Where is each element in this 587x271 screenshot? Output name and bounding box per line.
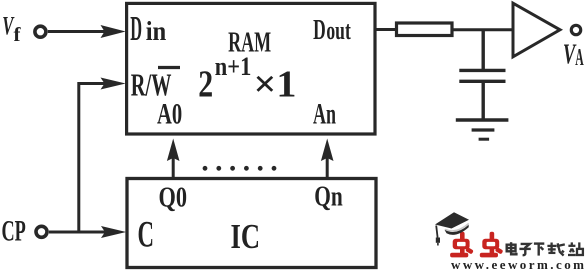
arrowhead into C (101, 226, 126, 238)
logo text zai (547, 243, 564, 256)
svg-text:2: 2 (198, 63, 213, 105)
logo bug char 2 (480, 232, 504, 258)
svg-text:n+1: n+1 (215, 52, 252, 81)
wire resistor to buffer (452, 28, 513, 31)
logo text dian (507, 242, 517, 254)
overline of W (158, 66, 180, 69)
arrow Q0 to A0 wire (172, 157, 175, 178)
svg-text:Qn: Qn (314, 182, 343, 213)
logo graduation cap board (435, 212, 469, 228)
arrowhead into R/W (101, 78, 126, 90)
svg-text:Q0: Q0 (159, 183, 188, 214)
svg-text:f: f (14, 24, 21, 46)
svg-text:out: out (326, 16, 351, 45)
IC block (counter) (127, 179, 376, 268)
svg-text:A: A (575, 45, 584, 71)
terminal VA (571, 25, 580, 34)
svg-text:R/W: R/W (131, 68, 172, 103)
svg-text:C: C (138, 213, 155, 254)
ground (456, 118, 509, 122)
svg-text:×1: ×1 (254, 63, 297, 105)
capacitor C1 bottom plate (459, 80, 505, 83)
logo cap tassel tail (437, 243, 439, 246)
RAM block U1 (127, 3, 375, 134)
terminal Vf (35, 26, 46, 37)
buffer amplifier U2 (513, 3, 560, 57)
arrowhead Q0 to A0 (167, 139, 180, 162)
logo text xia (534, 244, 544, 256)
svg-text:CP: CP (2, 216, 26, 248)
wire CP to C (49, 231, 107, 234)
arrow Qn to An wire (326, 157, 329, 178)
logo text zi (519, 244, 530, 255)
logo cap highlight band (445, 224, 469, 231)
logo cap tassel knot (436, 238, 440, 243)
svg-text:A0: A0 (157, 99, 182, 131)
svg-text:An: An (313, 99, 336, 131)
logo cap tassel (436, 226, 437, 238)
wire Vf to Din (48, 30, 106, 33)
svg-text:in: in (146, 16, 167, 46)
terminal CP (36, 226, 47, 237)
capacitor C1 top plate (459, 69, 505, 72)
wire node down to capacitor (482, 30, 485, 70)
svg-text:www.eeworm.com: www.eeworm.com (451, 257, 584, 271)
logo bug char 1 (450, 232, 474, 258)
logo cap body (445, 225, 469, 235)
svg-text:IC: IC (231, 218, 261, 256)
wire branch CP up to R/W pin (79, 84, 106, 233)
wire Dout to resistor (375, 28, 397, 31)
logo text zhan (568, 242, 583, 255)
arrowhead into Din (101, 25, 126, 38)
dotted bus ellipsis (203, 166, 277, 171)
svg-text:D: D (313, 14, 326, 46)
arrowhead Qn to An (321, 139, 334, 162)
resistor R1 (397, 23, 453, 36)
svg-text:D: D (130, 10, 142, 48)
wire capacitor to ground (482, 83, 485, 120)
